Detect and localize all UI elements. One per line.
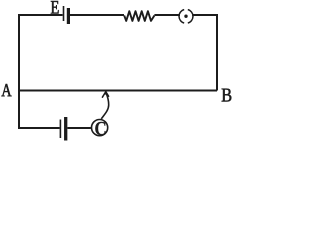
wire resistor to galvanometer	[154, 14, 180, 16]
wire left loop (bottom-left to top-left corner to battery E)	[19, 15, 63, 128]
galvanometer left arc	[179, 10, 184, 24]
jockey arrowhead	[102, 92, 108, 98]
node A label	[2, 84, 12, 96]
wire galvanometer to top-right corner down to B	[192, 15, 217, 91]
galvanometer right arc	[188, 10, 193, 24]
wire battery E to resistor	[70, 14, 124, 16]
resistor	[124, 11, 154, 21]
galvanometer center dot	[184, 15, 187, 18]
label C	[95, 122, 105, 135]
battery E thick plate	[67, 8, 70, 24]
wire cell to component C	[67, 127, 91, 129]
battery E thin plate	[63, 6, 65, 21]
cell (bottom) thick plate	[64, 117, 67, 141]
wire AB (potentiometer wire)	[19, 90, 217, 92]
cell (bottom) thin plate	[59, 120, 61, 139]
component C circle	[92, 120, 108, 136]
jockey wire curve	[101, 92, 108, 119]
label E	[51, 1, 59, 14]
node B label	[222, 89, 232, 102]
